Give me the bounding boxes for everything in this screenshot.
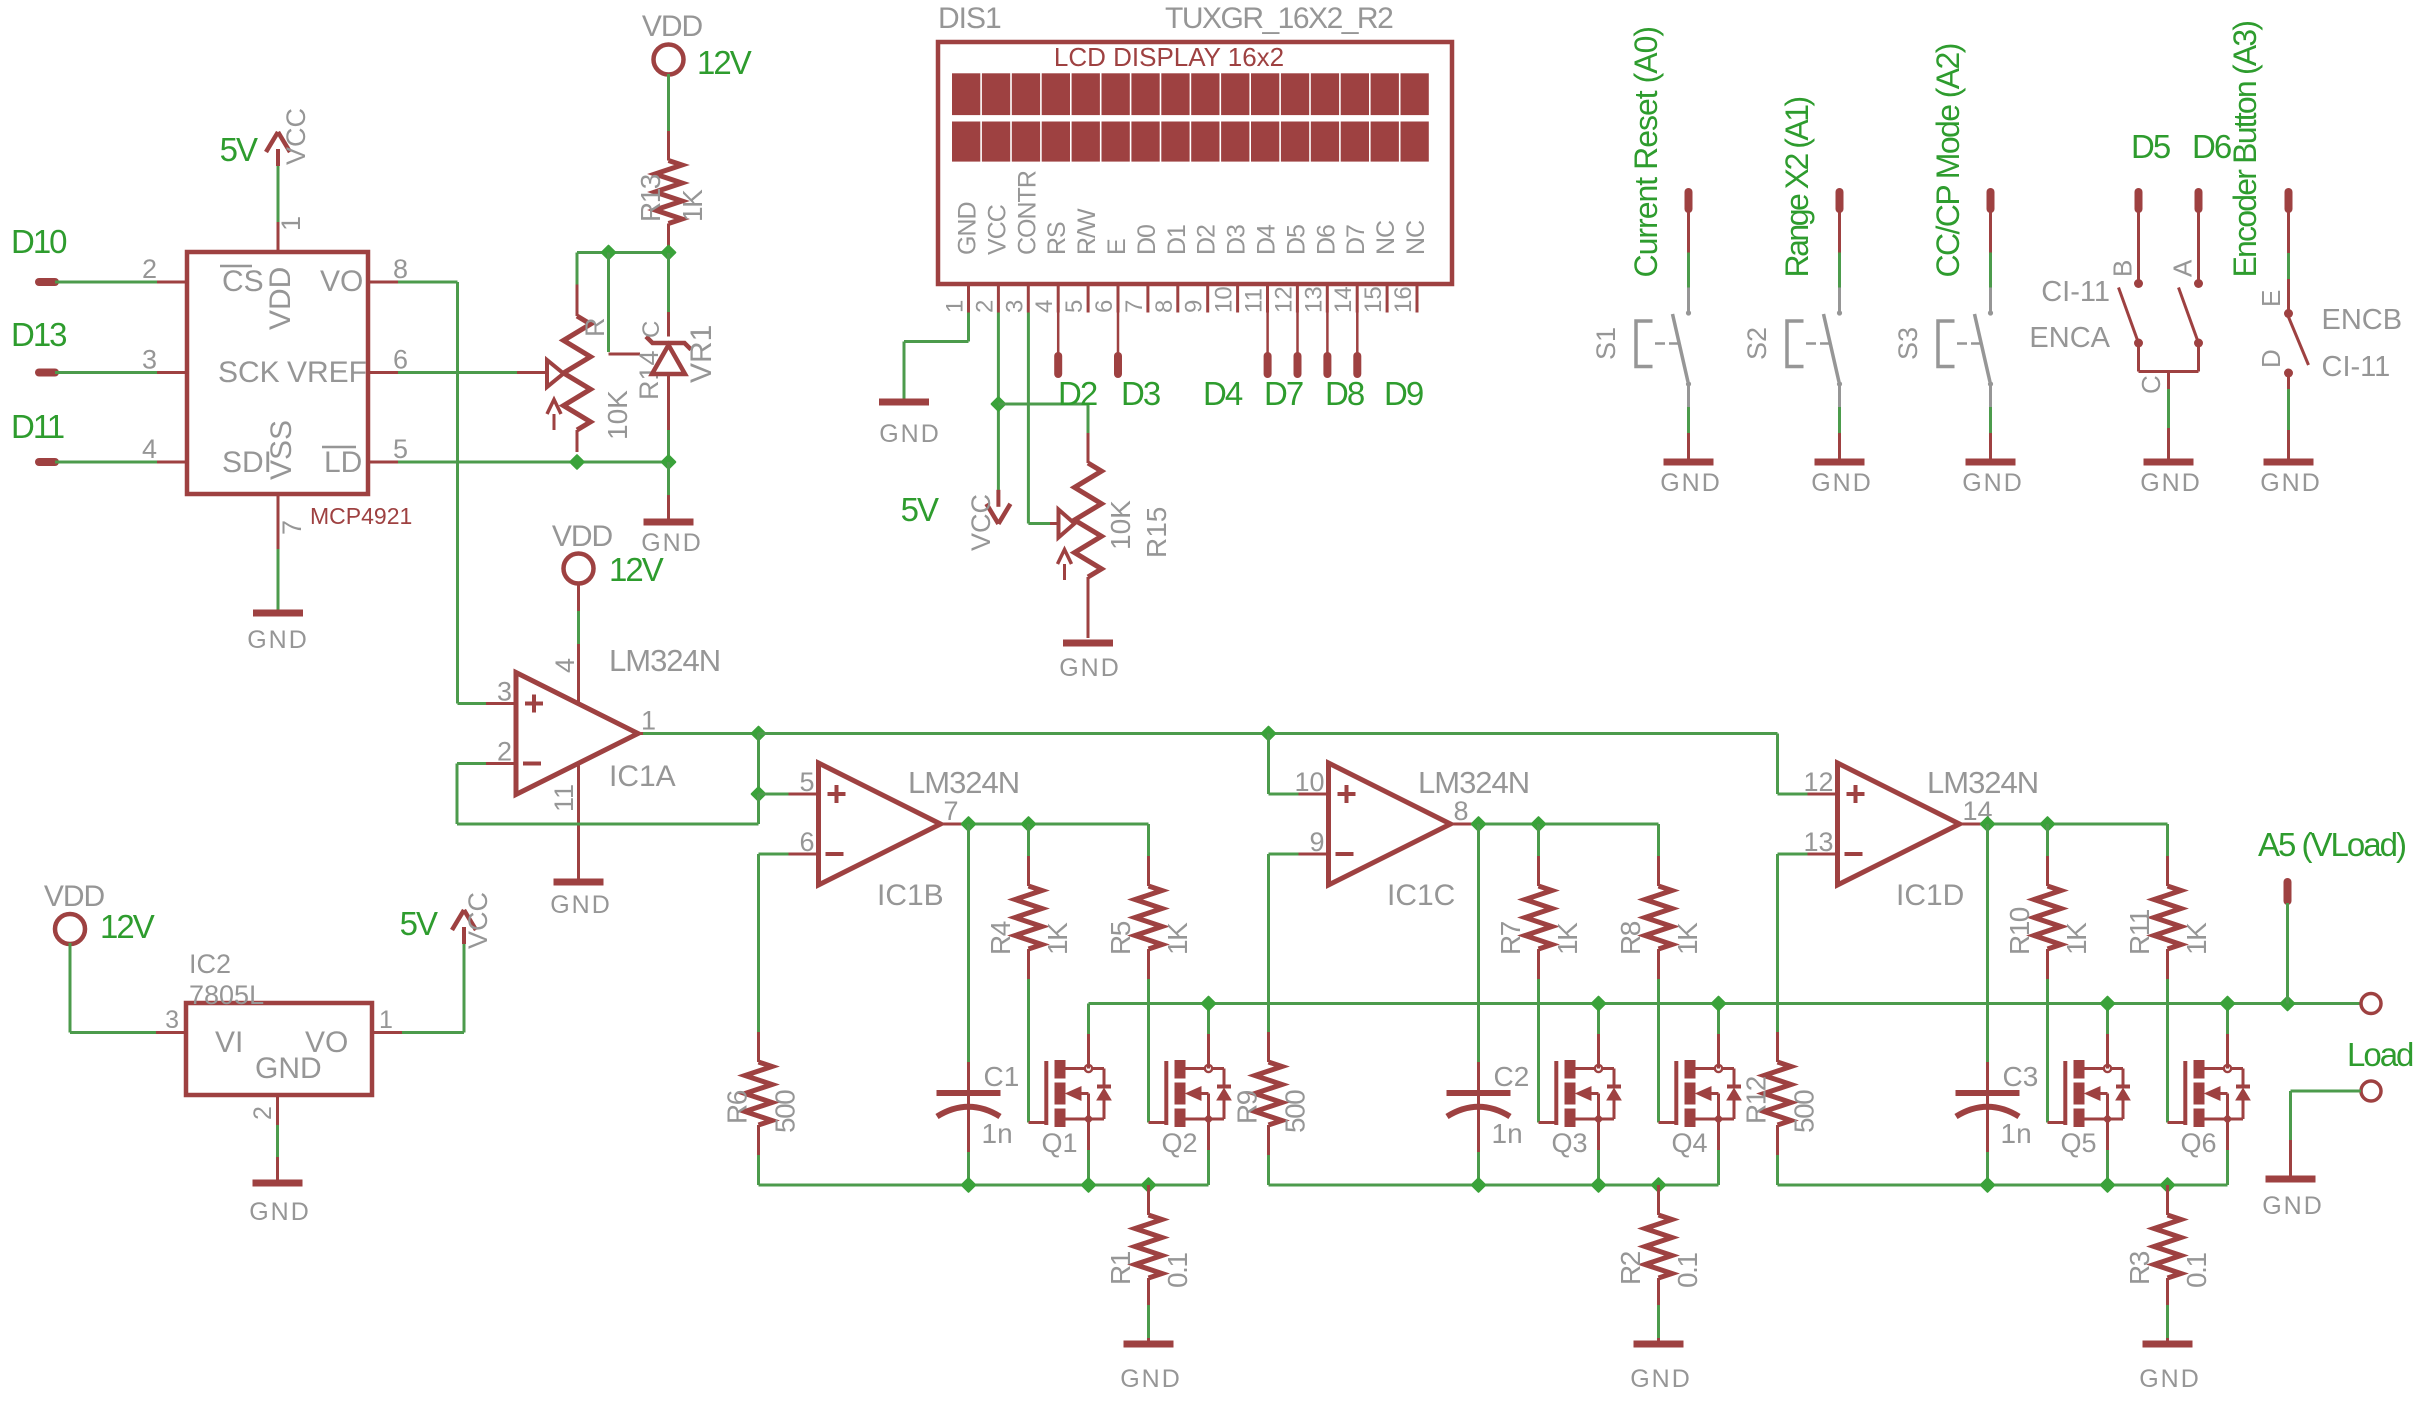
svg-text:5V: 5V — [220, 131, 258, 168]
junction node — [602, 246, 616, 260]
svg-text:LM324N: LM324N — [1418, 765, 1529, 800]
wire R10 to gate — [2046, 979, 2049, 1123]
trimmer R15 — [1087, 433, 1090, 463]
encoder common wiring — [2137, 343, 2140, 372]
wire IC1A output node — [643, 732, 759, 735]
svg-text:D10: D10 — [11, 223, 67, 260]
svg-text:11: 11 — [549, 784, 579, 812]
svg-text:5V: 5V — [400, 905, 438, 942]
wire Q4 source down — [1717, 1150, 1720, 1185]
svg-text:VSS: VSS — [265, 420, 298, 480]
junction node — [1532, 817, 1546, 831]
ground below S2 — [1815, 459, 1865, 466]
junction node — [752, 727, 766, 741]
svg-text:S2: S2 — [1742, 327, 1772, 360]
net stub A1 — [1836, 192, 1844, 209]
svg-text:IC1C: IC1C — [1387, 879, 1455, 912]
svg-text:1K: 1K — [677, 189, 708, 222]
svg-text:NC: NC — [1372, 220, 1400, 255]
junction node — [962, 817, 976, 831]
net stub A5 — [2284, 882, 2292, 901]
resistor R8 — [1657, 824, 1660, 856]
svg-text:R12: R12 — [1741, 1076, 1772, 1124]
svg-text:GND: GND — [2260, 469, 2322, 497]
ground below encoder button — [2264, 459, 2314, 466]
svg-text:VDD: VDD — [264, 267, 297, 330]
MOSFET Q4 — [1659, 1121, 1677, 1124]
svg-text:1n: 1n — [2001, 1118, 2032, 1149]
power VDD circle (top) — [654, 45, 684, 75]
svg-text:6: 6 — [393, 345, 408, 375]
svg-text:TUXGR_16X2_R2: TUXGR_16X2_R2 — [1165, 2, 1393, 35]
net stub D10 — [39, 278, 55, 286]
svg-text:R/W: R/W — [1073, 208, 1101, 255]
svg-text:1n: 1n — [1492, 1118, 1523, 1149]
svg-text:R15: R15 — [1141, 507, 1172, 558]
svg-text:R7: R7 — [1495, 921, 1526, 955]
svg-text:1K: 1K — [1042, 922, 1073, 955]
pin 6 VREF — [368, 371, 398, 374]
resistor R13 — [667, 131, 670, 161]
wire LCD pin2 VCC net — [997, 313, 1000, 495]
svg-text:1: 1 — [641, 706, 656, 736]
svg-text:12V: 12V — [100, 908, 155, 945]
svg-text:13: 13 — [1300, 286, 1327, 313]
svg-text:GND: GND — [1120, 1365, 1182, 1393]
Load terminal (top) — [2361, 994, 2381, 1014]
net stub on LCD pin 6 (E) — [1117, 313, 1120, 355]
svg-text:VCC: VCC — [966, 494, 996, 551]
svg-text:VO: VO — [320, 265, 363, 298]
svg-text:D3: D3 — [1121, 375, 1160, 412]
svg-text:13: 13 — [1803, 827, 1833, 857]
svg-text:VREF: VREF — [287, 356, 367, 389]
svg-text:RS: RS — [1043, 222, 1071, 255]
svg-text:R3: R3 — [2124, 1251, 2155, 1285]
svg-text:4: 4 — [1031, 300, 1058, 313]
svg-text:S3: S3 — [1893, 327, 1923, 360]
svg-text:Encoder Button (A3): Encoder Button (A3) — [2227, 22, 2263, 278]
svg-text:CS: CS — [222, 265, 264, 298]
switch S1 — [1687, 211, 1690, 253]
trimmer R14 — [576, 285, 579, 317]
MOSFET Q5 — [2048, 1121, 2066, 1124]
resistor R9 500 feedback — [1269, 853, 1299, 856]
ground below Load — [2266, 1176, 2316, 1183]
wire LCD pin3 CONTR to R15 wiper — [1027, 313, 1030, 524]
svg-text:VCC: VCC — [281, 108, 311, 165]
svg-text:NC: NC — [1402, 220, 1430, 255]
junction node — [570, 455, 584, 469]
svg-text:D9: D9 — [1384, 375, 1423, 412]
svg-text:Q1: Q1 — [1042, 1128, 1078, 1158]
wire pin 7 to ground — [277, 549, 280, 610]
resistor R12 500 feedback — [1778, 853, 1808, 856]
svg-text:Range X2 (A1): Range X2 (A1) — [1779, 97, 1815, 277]
svg-text:500: 500 — [770, 1090, 801, 1133]
pin 3 SCK — [157, 371, 187, 374]
svg-text:4: 4 — [142, 434, 157, 464]
svg-text:C1: C1 — [984, 1061, 1020, 1092]
svg-text:D6: D6 — [1312, 225, 1340, 255]
net stub D6 — [2195, 192, 2203, 209]
ground below VR1 — [644, 519, 694, 526]
svg-text:R2: R2 — [1615, 1251, 1646, 1285]
wire Q6 drain up — [2226, 1004, 2229, 1035]
svg-text:Q3: Q3 — [1552, 1128, 1588, 1158]
svg-text:3: 3 — [1001, 300, 1028, 313]
svg-text:7: 7 — [944, 796, 959, 826]
junction node — [1981, 1178, 1995, 1192]
junction node — [2281, 997, 2295, 1011]
svg-text:GND: GND — [1630, 1365, 1692, 1393]
junction node — [2041, 817, 2055, 831]
svg-text:10: 10 — [1294, 767, 1324, 797]
svg-text:D0: D0 — [1133, 225, 1161, 255]
svg-text:C3: C3 — [2003, 1061, 2039, 1092]
wire Q3 source down — [1597, 1150, 1600, 1185]
ground below R3 — [2143, 1341, 2193, 1348]
voltage regulator IC2 7805L — [186, 1003, 372, 1095]
junction node — [2161, 1178, 2175, 1192]
ground below S3 — [1966, 459, 2016, 466]
svg-text:15: 15 — [1360, 286, 1387, 313]
ground below R2 — [1634, 1341, 1684, 1348]
svg-text:DIS1: DIS1 — [938, 2, 1001, 35]
net stub D11 — [39, 458, 55, 466]
resistor R11 — [2166, 824, 2169, 856]
wire D13 to pin 3 — [55, 371, 157, 374]
svg-text:D11: D11 — [11, 408, 64, 445]
ground below IC2 — [253, 1180, 303, 1187]
wire D10 to pin 2 — [55, 281, 157, 284]
resistor R10 — [2046, 824, 2049, 856]
wire Q1 source down — [1087, 1150, 1090, 1185]
pin 1 VDD (top) — [277, 222, 280, 252]
svg-text:500: 500 — [1280, 1090, 1311, 1133]
svg-text:D4: D4 — [1203, 375, 1243, 412]
wire VCC to pin 1 — [277, 166, 280, 222]
svg-text:VCC: VCC — [463, 892, 493, 949]
svg-text:6: 6 — [1091, 300, 1118, 313]
svg-text:D6: D6 — [2192, 128, 2231, 165]
svg-text:D8: D8 — [1325, 375, 1364, 412]
svg-text:11: 11 — [1241, 288, 1268, 313]
switch S2 — [1838, 211, 1841, 253]
junction node — [2101, 1178, 2115, 1192]
junction node — [1472, 1178, 1486, 1192]
svg-text:1K: 1K — [2061, 922, 2092, 955]
svg-text:Q5: Q5 — [2061, 1128, 2097, 1158]
svg-text:C: C — [638, 321, 665, 338]
svg-text:IC1B: IC1B — [877, 879, 944, 912]
wire R4 to gate — [1027, 979, 1030, 1123]
svg-text:CI-11: CI-11 — [2322, 351, 2391, 383]
svg-text:5V: 5V — [901, 491, 939, 528]
svg-text:12: 12 — [1270, 286, 1297, 313]
svg-text:12V: 12V — [609, 551, 664, 588]
junction node — [1142, 1178, 1156, 1192]
svg-text:1: 1 — [379, 1006, 393, 1034]
svg-text:D7: D7 — [1342, 225, 1370, 255]
junction node — [1202, 997, 1216, 1011]
svg-text:D2: D2 — [1058, 375, 1097, 412]
svg-text:R11: R11 — [2124, 909, 2155, 955]
svg-text:Q2: Q2 — [1162, 1128, 1198, 1158]
wire Q2 source down — [1207, 1150, 1210, 1185]
svg-text:D2: D2 — [1193, 225, 1221, 255]
junction node — [992, 397, 1006, 411]
wire R8 to gate — [1657, 979, 1660, 1123]
shunt resistor R1 — [1147, 1185, 1150, 1215]
net stub A3 — [2285, 192, 2293, 209]
svg-text:S1: S1 — [1591, 327, 1621, 360]
svg-text:0.1: 0.1 — [1162, 1253, 1193, 1288]
svg-text:GND: GND — [550, 891, 612, 919]
wire IC1D output row — [1987, 823, 2168, 826]
wire VREF pin 6 to R14 wiper — [398, 371, 517, 374]
junction node — [1022, 817, 1036, 831]
MOSFET Q1 — [1029, 1121, 1047, 1124]
svg-text:VDD: VDD — [642, 10, 703, 43]
LCD display DIS1 box — [938, 42, 1452, 284]
svg-text:R: R — [580, 318, 610, 338]
svg-text:VI: VI — [215, 1026, 243, 1059]
svg-text:R8: R8 — [1615, 921, 1646, 955]
svg-text:5: 5 — [1061, 300, 1088, 313]
svg-text:LM324N: LM324N — [1927, 765, 2038, 800]
net stub on LCD pin 4 (RS) — [1057, 313, 1060, 355]
wire LCD pin1 to ground — [967, 313, 970, 342]
svg-text:12V: 12V — [697, 44, 752, 81]
op-amp IC1D — [1838, 763, 1960, 885]
VLoad drain rail — [1089, 1002, 2362, 1005]
svg-text:SCK: SCK — [218, 356, 280, 389]
shunt resistor R2 — [1657, 1185, 1660, 1215]
resistor R4 — [1027, 824, 1030, 856]
svg-text:5: 5 — [799, 767, 814, 797]
svg-text:R6: R6 — [722, 1090, 753, 1124]
pin 7 VSS (bottom) — [277, 494, 280, 549]
junction node — [752, 787, 766, 801]
svg-text:Current Reset (A0): Current Reset (A0) — [1628, 27, 1664, 278]
svg-text:2: 2 — [497, 737, 512, 767]
svg-text:C2: C2 — [1494, 1061, 1530, 1092]
wire Q5 source down — [2106, 1150, 2109, 1185]
svg-text:8: 8 — [393, 254, 408, 284]
wire R11 to gate — [2166, 979, 2169, 1123]
op-amp IC1C — [1329, 763, 1451, 885]
svg-text:C: C — [2136, 375, 2166, 394]
shunt resistor R3 — [2166, 1185, 2169, 1215]
LCD character cells — [952, 73, 980, 115]
wire to ground below VR1 — [667, 462, 670, 495]
svg-text:VDD: VDD — [552, 520, 613, 553]
pin 2 CS — [157, 281, 187, 284]
svg-text:LCD DISPLAY 16x2: LCD DISPLAY 16x2 — [1054, 42, 1284, 72]
svg-text:9: 9 — [1309, 827, 1324, 857]
svg-text:A: A — [2168, 259, 2198, 277]
VCC supply arrow at 7805 output — [462, 927, 466, 944]
svg-text:D3: D3 — [1223, 225, 1251, 255]
pin 1 VO — [372, 1031, 402, 1034]
net stub D5 — [2135, 192, 2143, 209]
wire VR1 bottom — [667, 430, 670, 462]
svg-text:GND: GND — [879, 420, 941, 448]
net stub A0 — [1685, 192, 1693, 209]
svg-text:1n: 1n — [982, 1118, 1013, 1149]
svg-text:E: E — [1103, 239, 1131, 255]
junction node — [1262, 727, 1276, 741]
svg-text:IC1D: IC1D — [1896, 879, 1964, 912]
wire R7 to gate — [1537, 979, 1540, 1123]
ground below LCD pin 1 — [879, 399, 929, 406]
svg-text:3: 3 — [497, 677, 512, 707]
junction node — [1981, 817, 1995, 831]
zener diode VR1 — [667, 312, 670, 337]
svg-text:GND: GND — [255, 1052, 322, 1085]
net stub on LCD pin 14 — [1356, 313, 1359, 355]
svg-text:7805L: 7805L — [189, 980, 264, 1010]
wire to R14 wiper S pin — [607, 253, 610, 353]
svg-text:B: B — [2108, 260, 2138, 277]
pin 8 VO — [368, 281, 398, 284]
svg-text:D13: D13 — [11, 316, 66, 353]
net stub on LCD pin 11 — [1266, 313, 1269, 355]
Load terminal (bottom) — [2361, 1081, 2381, 1101]
ground below R1 — [1124, 1341, 1174, 1348]
svg-text:GND: GND — [1811, 469, 1873, 497]
svg-text:8: 8 — [1454, 796, 1469, 826]
svg-text:10K: 10K — [602, 390, 633, 440]
svg-text:0.1: 0.1 — [2181, 1253, 2212, 1288]
power VDD circle above IC1A — [564, 554, 594, 584]
svg-text:GND: GND — [1660, 469, 1722, 497]
wire to IC1B pin 5 — [759, 793, 789, 796]
switch S3 — [1989, 211, 1992, 253]
source rail of stage IC1C — [1269, 1184, 1719, 1187]
wire VO to VCC — [402, 1031, 464, 1034]
wire VR1 top — [667, 253, 670, 312]
svg-text:GND: GND — [249, 1198, 311, 1226]
net stub on LCD pin 13 — [1326, 313, 1329, 355]
wire VDD to VI — [69, 943, 72, 1033]
net stub on LCD pin 12 — [1296, 313, 1299, 355]
wire bus from IC1A output — [759, 732, 1778, 735]
svg-text:ENCB: ENCB — [2322, 304, 2403, 336]
svg-text:14: 14 — [1330, 286, 1357, 313]
svg-text:A5 (VLoad): A5 (VLoad) — [2258, 826, 2405, 863]
svg-text:IC2: IC2 — [189, 949, 231, 979]
svg-text:CC/CP Mode (A2): CC/CP Mode (A2) — [1930, 44, 1966, 277]
wire to R14 top — [576, 253, 579, 285]
svg-text:5: 5 — [393, 434, 408, 464]
wire IC1C output row — [1478, 823, 1659, 826]
svg-text:GND: GND — [2139, 1365, 2201, 1393]
svg-text:R1: R1 — [1105, 1251, 1136, 1285]
MOSFET Q6 — [2168, 1121, 2186, 1124]
wire VDD to R13 — [667, 74, 670, 131]
resistor R5 — [1147, 824, 1150, 856]
wire Q4 drain up — [1717, 1004, 1720, 1035]
junction node — [1472, 817, 1486, 831]
svg-text:1: 1 — [942, 300, 969, 313]
svg-text:GND: GND — [1059, 654, 1121, 682]
svg-text:VR1: VR1 — [685, 325, 718, 383]
svg-text:500: 500 — [1789, 1090, 1820, 1133]
pin 2 GND — [276, 1095, 279, 1125]
svg-text:7: 7 — [277, 520, 307, 535]
svg-text:LD: LD — [324, 446, 362, 479]
wire R13 bottom node — [577, 251, 669, 254]
svg-text:R13: R13 — [635, 174, 666, 222]
junction node — [662, 455, 676, 469]
junction node — [1652, 1178, 1666, 1192]
svg-text:12: 12 — [1803, 767, 1833, 797]
wire Load bottom to ground — [2291, 1090, 2362, 1093]
svg-text:CONTR: CONTR — [1013, 171, 1041, 255]
svg-text:D7: D7 — [1264, 375, 1303, 412]
svg-text:10K: 10K — [1105, 500, 1136, 550]
op-amp IC1B — [819, 763, 941, 885]
svg-text:R10: R10 — [2004, 907, 2035, 955]
svg-text:D4: D4 — [1253, 224, 1281, 255]
op-amp IC1A — [516, 673, 638, 795]
wire Q1 drain up — [1087, 1004, 1090, 1035]
wire R5 to gate — [1147, 979, 1150, 1123]
svg-text:LM324N: LM324N — [609, 643, 720, 678]
net LD wire (pin5 row) — [398, 461, 669, 464]
ground below encoder AB — [2144, 459, 2194, 466]
junction node — [1592, 997, 1606, 1011]
ground below S1 — [1664, 459, 1714, 466]
MOSFET Q3 — [1539, 1121, 1557, 1124]
svg-text:Load: Load — [2347, 1036, 2413, 1073]
MOSFET Q2 — [1149, 1121, 1167, 1124]
svg-text:GND: GND — [2140, 469, 2202, 497]
wire Q3 drain up — [1597, 1004, 1600, 1035]
junction node — [962, 1178, 976, 1192]
junction node — [1592, 1178, 1606, 1192]
svg-text:GND: GND — [247, 626, 309, 654]
encoder switch ENCA (CI-11) — [2137, 211, 2140, 284]
feedback wire to IC1A pin 2 — [757, 794, 760, 824]
net stub A2 — [1987, 192, 1995, 209]
wire VO pin 8 net — [398, 281, 458, 284]
wire IC1B output row — [968, 823, 1149, 826]
svg-text:0.1: 0.1 — [1672, 1253, 1703, 1288]
svg-text:D1: D1 — [1163, 225, 1191, 255]
resistor R6 500 feedback — [759, 853, 789, 856]
svg-text:D5: D5 — [2131, 128, 2170, 165]
svg-text:LM324N: LM324N — [908, 765, 1019, 800]
capacitor C1 — [967, 824, 970, 1062]
pin 11 V- of IC1A — [577, 764, 580, 824]
ground below MCP4921 — [253, 610, 303, 617]
svg-text:1K: 1K — [1162, 922, 1193, 955]
pin 5 LD — [368, 461, 398, 464]
svg-text:3: 3 — [142, 345, 157, 375]
capacitor C2 — [1477, 824, 1480, 1062]
junction node — [1712, 997, 1726, 1011]
wire D11 to pin 4 — [55, 461, 157, 464]
svg-text:4: 4 — [550, 658, 580, 673]
svg-text:7: 7 — [1121, 300, 1148, 313]
capacitor C3 — [1986, 824, 1989, 1062]
svg-text:1K: 1K — [1672, 922, 1703, 955]
svg-text:R4: R4 — [985, 921, 1016, 955]
svg-text:1K: 1K — [1552, 922, 1583, 955]
